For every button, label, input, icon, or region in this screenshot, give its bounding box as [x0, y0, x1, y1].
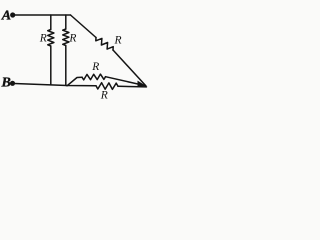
resistor R2 (right vertical)	[63, 15, 69, 85]
resistor R4 (middle horizontal)	[82, 74, 106, 80]
svg-text:R: R	[114, 35, 122, 47]
wire: middle branch to right vertex	[106, 77, 146, 86]
resistor R3 (diagonal)	[71, 15, 146, 86]
svg-text:B: B	[1, 76, 11, 91]
svg-text:R: R	[91, 61, 99, 73]
node A	[1, 9, 16, 24]
wire: bottom from B to R5	[14, 84, 96, 86]
junction: right vertex (filled wedge where three branches meet)	[138, 81, 146, 88]
wire: bottom to right vertex	[118, 85, 147, 88]
svg-text:R: R	[39, 33, 47, 45]
svg-text:R: R	[100, 90, 108, 102]
svg-text:A: A	[1, 9, 11, 24]
resistor R5 (bottom inline)	[96, 83, 118, 90]
svg-text:R: R	[68, 33, 76, 45]
wire: middle branch slant up from bottom wire	[67, 77, 82, 86]
resistor R1 (left vertical)	[48, 15, 54, 85]
node B	[1, 76, 16, 91]
wire: top from A to diagonal start	[15, 14, 71, 16]
